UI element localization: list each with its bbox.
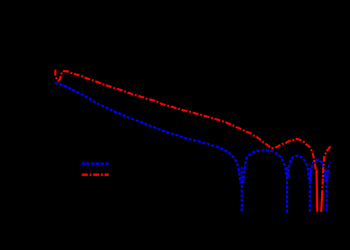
- red curve main segment: [55, 70, 316, 171]
- legend sample: red dash-dot: [82, 174, 109, 176]
- blue null 4 vertical: [325, 170, 327, 212]
- blue lobe 1: [243, 150, 286, 183]
- blue lobe 4: [327, 162, 330, 182]
- legend sample: blue dashed: [82, 163, 109, 165]
- blue null 2 vertical: [286, 165, 288, 213]
- blue null 3 vertical: [309, 168, 311, 212]
- red curve right branch after deep null: [322, 146, 331, 196]
- blue lobe 3: [311, 160, 326, 182]
- red null right branch solid vertical: [320, 196, 323, 212]
- blue curve main segment: [55, 83, 241, 183]
- blue lobe 2: [288, 156, 309, 182]
- blue null 1 vertical: [241, 167, 243, 212]
- red null left branch solid vertical: [315, 170, 318, 212]
